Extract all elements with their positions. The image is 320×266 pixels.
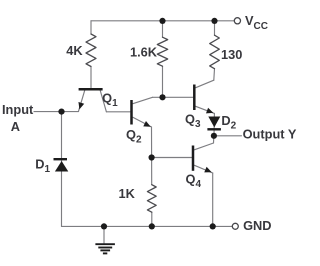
svg-text:Output Y: Output Y <box>243 127 297 142</box>
svg-text:1.6K: 1.6K <box>130 45 158 60</box>
svg-text:D2: D2 <box>221 113 236 132</box>
svg-text:Q2: Q2 <box>126 127 142 146</box>
svg-text:4K: 4K <box>66 43 83 58</box>
svg-text:130: 130 <box>221 47 242 62</box>
svg-text:1K: 1K <box>119 186 136 201</box>
svg-text:A: A <box>11 119 20 134</box>
svg-text:GND: GND <box>243 218 271 233</box>
svg-text:VCC: VCC <box>245 13 268 32</box>
svg-text:Q3: Q3 <box>185 112 201 131</box>
svg-text:Input: Input <box>2 102 34 117</box>
svg-text:Q4: Q4 <box>186 172 202 191</box>
svg-text:D1: D1 <box>35 157 50 176</box>
